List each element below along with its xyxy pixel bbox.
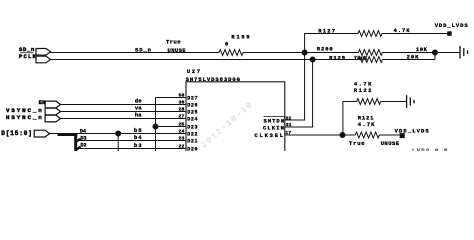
svg-text:2012-10-10: 2012-10-10 xyxy=(200,100,256,150)
wire va row (VSYNC_n to D25) xyxy=(61,111,187,113)
wire vertical v156 (D27 corner down off-page) xyxy=(155,98,157,152)
pin name SHTDN (active low) xyxy=(264,117,286,125)
svg-text:R122: R122 xyxy=(354,87,373,94)
svg-text:50: 50 xyxy=(179,92,185,98)
wire R199 to dot1 xyxy=(243,52,358,54)
svg-text:0: 0 xyxy=(225,40,228,47)
svg-text:b3: b3 xyxy=(134,142,142,149)
svg-text:24: 24 xyxy=(179,128,185,134)
wire D23 stub xyxy=(156,126,187,128)
ground symbol (mid right, sideways) xyxy=(407,95,414,108)
svg-text:CLKSEL: CLKSEL xyxy=(255,132,285,139)
resistor R127 xyxy=(318,27,410,36)
svg-text:R125: R125 xyxy=(329,54,346,61)
wire R122 to ground xyxy=(381,101,407,103)
svg-text:True: True xyxy=(349,140,365,147)
bus D[15:0] horizontal xyxy=(58,133,78,136)
svg-text:True: True xyxy=(166,38,181,45)
svg-text:SN75LVDS83DGG: SN75LVDS83DGG xyxy=(186,76,241,83)
resistor R125 xyxy=(329,53,419,62)
svg-text:D22: D22 xyxy=(187,132,198,138)
node junction dot2 (PCLK / CLKIN tap) xyxy=(310,57,316,63)
svg-text:D20: D20 xyxy=(187,147,198,151)
wire PCLK row xyxy=(51,59,359,61)
wire vertical v3 (dot4 up to R122) xyxy=(342,102,344,136)
wire SD_n row xyxy=(51,52,220,54)
svg-text:D25: D25 xyxy=(187,110,198,116)
wire R122 row left xyxy=(343,101,357,103)
off-page connector D[15:0] xyxy=(1,130,49,137)
svg-text:U27: U27 xyxy=(187,68,202,75)
svg-text:D27: D27 xyxy=(187,96,198,102)
svg-text:va: va xyxy=(135,105,142,112)
watermark date xyxy=(200,100,256,150)
svg-text:CLKIN: CLKIN xyxy=(263,125,285,132)
node junction dot4 (CLKSEL node) xyxy=(340,132,346,138)
resistor R199 xyxy=(219,33,251,55)
svg-text:D4: D4 xyxy=(80,128,86,134)
wire R127 row xyxy=(304,33,358,35)
svg-text:R199: R199 xyxy=(231,33,251,40)
svg-text:28: 28 xyxy=(179,106,185,112)
wire SHTDN stub xyxy=(285,119,305,121)
svg-text:EN: EN xyxy=(39,99,46,106)
power symbol VDD_LVDS (bottom) xyxy=(395,128,430,139)
off-page connector VSYNC_n xyxy=(6,107,61,115)
svg-text:R200: R200 xyxy=(317,45,334,52)
wire vertical v1 (dot1 up to R127, down to SHTDN) xyxy=(304,34,306,121)
svg-text:de: de xyxy=(135,98,142,105)
svg-text:25: 25 xyxy=(179,121,185,127)
svg-text:D21: D21 xyxy=(187,139,198,145)
wire riser R125 up to dot3 xyxy=(434,53,436,60)
svg-text:PCLK: PCLK xyxy=(19,53,37,60)
off-page connector SD_n xyxy=(19,46,51,55)
bus entry rib D3 xyxy=(77,139,81,142)
wire vertical v118 (down off-page) xyxy=(117,134,119,152)
svg-text:VSYNC_n: VSYNC_n xyxy=(6,107,44,114)
op-amp U27 IC body SN75LVDS83DGG xyxy=(186,68,285,157)
svg-text:VDD_LVDS: VDD_LVDS xyxy=(435,22,469,29)
wire D3 row (bus to D21) xyxy=(79,140,187,142)
wire CLKIN stub xyxy=(285,126,313,128)
wire dot3 to ground xyxy=(435,52,460,54)
svg-text:R127: R127 xyxy=(318,27,336,34)
svg-text:D3: D3 xyxy=(81,136,87,142)
wire vertical v2 (dot2 down to CLKIN) xyxy=(312,60,314,128)
svg-text:VDD_LVDS: VDD_LVDS xyxy=(395,128,430,135)
svg-text:UNUSE: UNUSE xyxy=(168,47,187,54)
svg-text:30: 30 xyxy=(179,99,185,105)
svg-text:ha: ha xyxy=(135,112,142,119)
wire R121 to VDD xyxy=(379,134,400,136)
wire R200 to dot3 xyxy=(382,52,435,54)
wire D4 row (bus to D22) xyxy=(76,133,186,135)
wire CLKSEL stub to dot4 xyxy=(285,134,343,136)
node junction dot3 xyxy=(432,50,438,56)
ground symbol (top right, sideways) xyxy=(460,46,468,59)
svg-text:UNUSE: UNUSE xyxy=(381,140,400,147)
off-page connector HSYNC_n xyxy=(6,114,61,122)
resistor R200 xyxy=(317,45,428,55)
wire D27 stub xyxy=(156,97,187,99)
svg-text:22: 22 xyxy=(179,143,185,149)
svg-text:23: 23 xyxy=(179,135,185,141)
wire R127 to VDD xyxy=(382,33,448,35)
svg-text:27: 27 xyxy=(179,113,185,119)
svg-text:10K: 10K xyxy=(416,46,428,53)
svg-text:D2: D2 xyxy=(81,143,87,149)
svg-text:D23: D23 xyxy=(187,125,198,131)
resistor R121 xyxy=(349,115,400,147)
power symbol VDD_LVDS (top) xyxy=(435,22,469,36)
svg-text:D26: D26 xyxy=(187,103,198,109)
svg-text:HSYNC_n: HSYNC_n xyxy=(6,114,44,121)
off-page connector PCLK xyxy=(19,53,51,63)
resistor R122 xyxy=(354,81,381,105)
wire D2 row (bus to D20) xyxy=(79,148,187,150)
svg-text:LVDS_0_P: LVDS_0_P xyxy=(412,147,449,151)
svg-text:D24: D24 xyxy=(187,117,198,123)
wire ha row (HSYNC_n to D24) xyxy=(61,118,187,120)
node junction dot5 (D23 tap) xyxy=(153,124,159,130)
svg-text:4.7K: 4.7K xyxy=(358,121,376,128)
bus D[15:0] vertical xyxy=(74,133,77,151)
wire dot4 to R121 xyxy=(343,134,355,136)
off-page connector EN xyxy=(39,99,61,108)
wire D[15:0] tip to bus xyxy=(50,133,58,135)
node junction dot1 (SD_n / SHTDN tap) xyxy=(302,50,308,56)
node junction dot6 (D4 tap down) xyxy=(115,131,121,137)
bus entry rib D2 xyxy=(77,147,81,150)
wire R125 to riser xyxy=(382,59,435,61)
svg-text:SHTDN: SHTDN xyxy=(264,117,286,124)
svg-text:SD_n: SD_n xyxy=(135,47,152,54)
svg-text:D[15:0]: D[15:0] xyxy=(1,130,33,137)
wire de row (EN to D26) xyxy=(61,104,187,106)
